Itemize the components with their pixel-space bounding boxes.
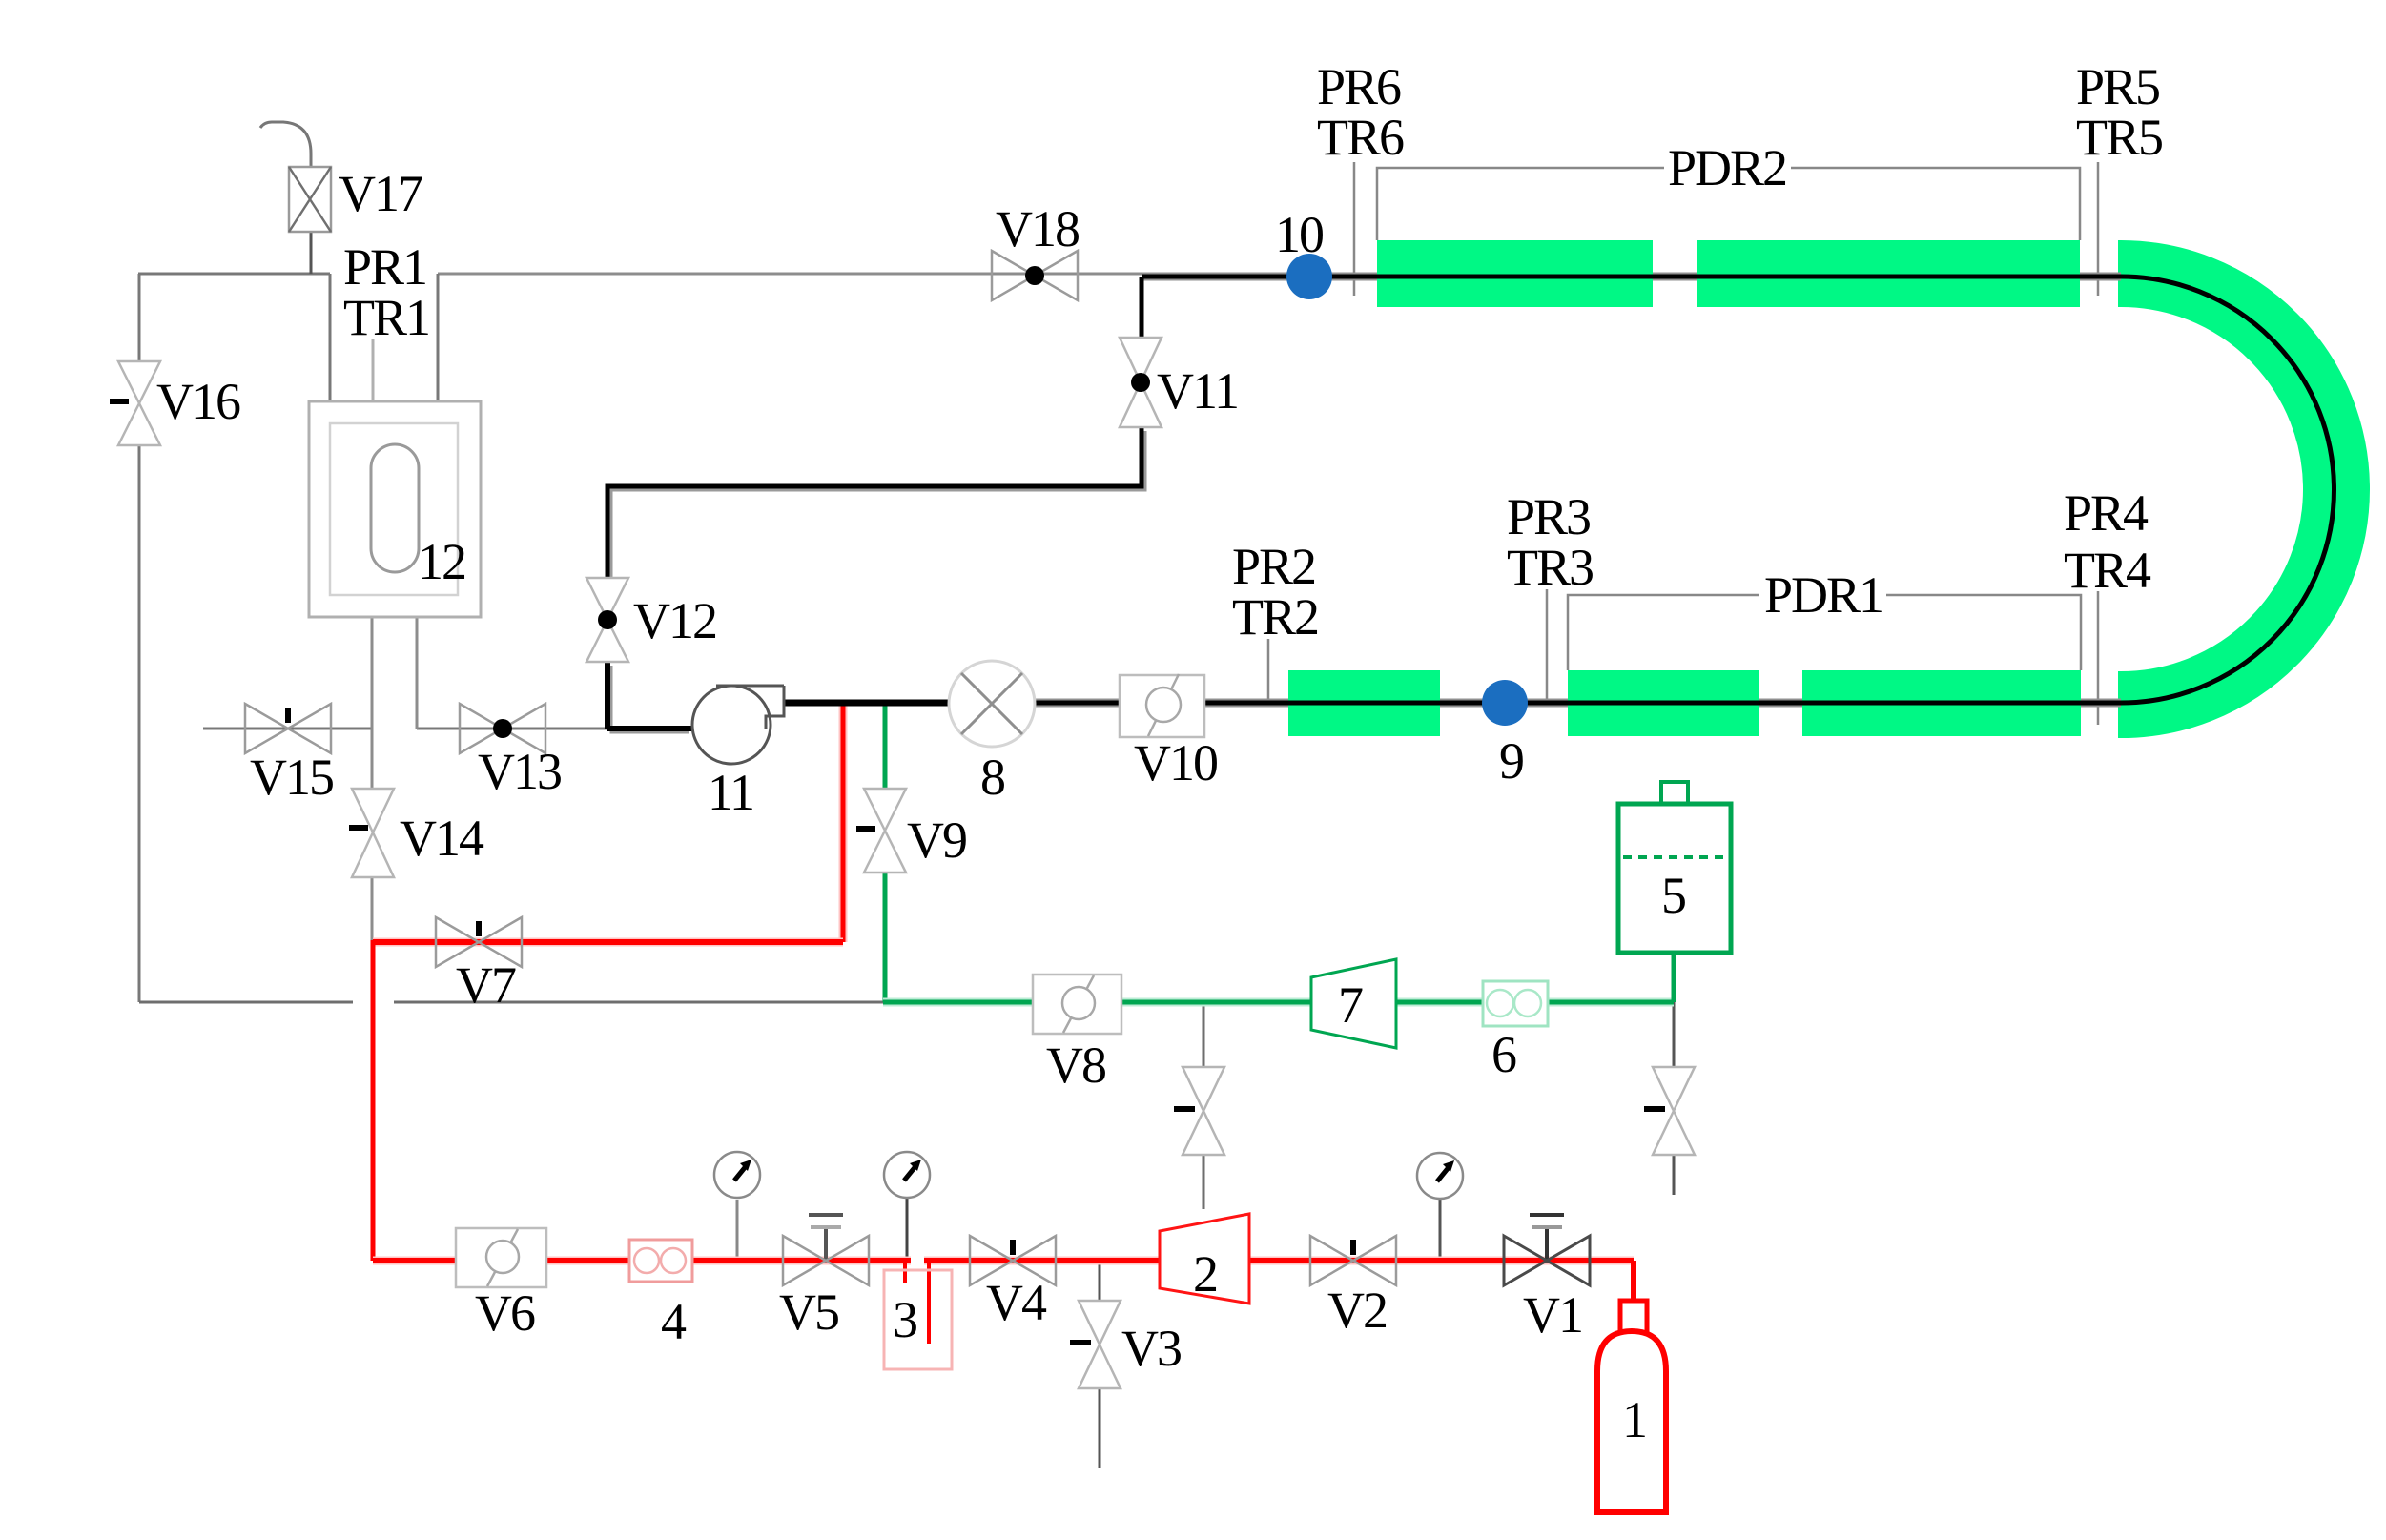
green pipe: riser to tank 5 [1672,953,1676,1002]
red pipe halo: V7 line [373,938,843,947]
green band top row left (under PDR2) [1377,240,1653,307]
svg-text:V6: V6 [475,1284,535,1342]
wire: bottom horizontal gray pipe right of red crossing [394,1001,883,1004]
svg-text:4: 4 [661,1293,687,1350]
wire: V3 drain stub [1099,1261,1101,1468]
heat exchanger 8 circle with cross [949,661,1035,747]
green pipe: branch from pump line down to V9 [883,704,888,789]
svg-text:6: 6 [1491,1026,1516,1083]
svg-text:TR2: TR2 [1232,588,1318,646]
green band mid row 1 (left of node 9) [1288,670,1440,736]
black pipe: below V11 elbow across to V12 [607,427,1142,578]
PDR2 differential sensor bracket [1377,168,2080,240]
wire: PR6 TR6 sensor stub [1353,162,1356,296]
svg-text:9: 9 [1499,732,1523,790]
vessel 12 outer box [309,401,481,617]
valve V16 (vertical) [110,361,160,445]
pump 11 circle [692,686,771,764]
svg-text:PR2: PR2 [1232,538,1315,595]
wire: bottom horizontal gray pipe left of red crossing [139,1001,353,1004]
svg-text:V10: V10 [1134,734,1217,791]
vessel 12 inner box [330,423,458,595]
valve V4 [970,1236,1056,1285]
wire: gauge stem at component 4 [736,1200,739,1261]
svg-text:PR1: PR1 [343,238,426,296]
wire: tap from top pipe into vessel 12 (left) [329,274,332,401]
wire: vessel 12 bottom tap to V13 branch [416,617,419,729]
black pipe: main loop top line and U-bend and mid line [951,277,2335,703]
vessel 12 capsule [371,444,419,572]
valve V18 [992,251,1078,300]
pressure gauge at component 4 [714,1152,760,1198]
svg-text:V11: V11 [1157,362,1238,420]
svg-text:V5: V5 [779,1283,838,1341]
black pipe: pump outlet line [784,700,954,707]
compressor 2 (red trapezoid) [1160,1214,1249,1304]
svg-text:1: 1 [1622,1391,1646,1448]
red pipe: trap 3 inlet tube [903,1263,907,1283]
svg-text:3: 3 [893,1291,916,1348]
svg-text:V16: V16 [156,373,240,430]
valve V3 (vertical) [1070,1301,1121,1388]
valve V15 [245,704,331,753]
valve V11 (vertical) [1120,338,1162,427]
gray echo below V12 [611,666,689,732]
svg-text:V17: V17 [339,165,422,222]
svg-text:PR5: PR5 [2076,58,2159,115]
wire: PR2 TR2 sensor stub [1267,639,1270,707]
svg-text:12: 12 [418,533,465,590]
wire: V15 branch line [203,728,372,730]
svg-text:PR4: PR4 [2064,484,2149,542]
svg-text:V15: V15 [250,749,333,806]
gas cylinder 1 [1597,1301,1666,1512]
svg-text:11: 11 [708,764,753,821]
svg-text:TR4: TR4 [2064,542,2151,599]
valve V5 with handwheel [783,1215,869,1285]
wire: tap from top pipe into vessel 12 (right) [437,274,440,401]
valve V1 with handwheel [1504,1215,1590,1285]
wire: gauge stem at V1 [1439,1200,1442,1261]
wire: gauge stem at trap 3 [906,1197,909,1261]
pressure gauge at V1 [1417,1153,1463,1199]
wire: V13 branch line [417,728,607,730]
check valve V10 [1120,674,1204,737]
gray echo of bypass elbow [611,431,1145,578]
black pipe: junction down to V11 [1140,277,1144,338]
wire: vessel 12 bottom tap to V14 [371,617,374,789]
svg-text:PR6: PR6 [1317,58,1401,115]
svg-text:V9: V9 [907,811,966,869]
svg-text:TR1: TR1 [343,289,429,346]
green pipe: below V9 to recovery line [883,873,888,1002]
valve V9 (vertical) [856,789,906,873]
compressor 7 (green trapezoid) [1311,959,1396,1048]
svg-text:8: 8 [980,749,1004,806]
check valve V6 [456,1228,546,1287]
wire: top horizontal pipe right segment (to V18 and junction) [438,273,1142,276]
wire: vent stub below green line (left) [1203,1002,1205,1209]
green band mid row 3 (under PDR1 right) [1802,670,2081,736]
wire: PR4 TR4 sensor stub [2097,591,2100,725]
wire: PR5 TR5 sensor stub [2097,162,2100,296]
gray pipe halo: mid line segments [1035,699,2121,708]
wire: left vertical pipe upper (x=146) [138,274,141,361]
red pipe: left vertical down to bottom line [371,940,376,1261]
red pipe: bottom supply line [373,1261,1634,1301]
svg-text:TR6: TR6 [1317,109,1404,166]
svg-text:V2: V2 [1327,1282,1387,1339]
green pipe halo: recovery line [883,998,1674,1007]
wire: top horizontal pipe left segment [138,273,330,276]
filter 6 (green) [1483,981,1548,1026]
svg-text:TR3: TR3 [1507,539,1593,596]
svg-text:V4: V4 [986,1274,1047,1331]
svg-text:5: 5 [1661,867,1685,924]
recovery tank 5 [1618,782,1731,953]
svg-text:TR5: TR5 [2076,109,2162,166]
vent valve below green line (vertical) [1174,1067,1224,1155]
svg-text:V13: V13 [478,743,561,800]
valve V12 (vertical) [586,578,628,662]
vent valve below tank 5 (vertical) [1644,1067,1695,1155]
valve V7 [436,917,522,967]
wire: below V14 to red corner [371,877,374,940]
moisture trap 3 [884,1270,952,1369]
node 10 (blue) [1286,254,1332,299]
red pipe: V7 horizontal line [373,939,843,945]
wire: TR1 sensor line into vessel 12 [372,339,375,448]
pressure gauge at trap 3 [884,1152,930,1198]
green band mid row 2 (under PDR1 left) [1568,670,1759,736]
red pipe halo: pump outlet drop [839,706,848,942]
green U-bend band [2118,274,2336,705]
red pipe: trap 3 outlet dip tube [927,1261,931,1344]
wire: PR3 TR3 sensor stub [1546,589,1549,707]
black pipe: below V12 to pump inlet [607,662,693,729]
svg-text:V7: V7 [456,956,516,1014]
green pipe: recovery horizontal line to tank 5 [883,1000,1674,1005]
svg-text:V14: V14 [400,810,484,867]
gray pipe halo: top line right of junction [1142,273,2121,281]
svg-text:V8: V8 [1046,1037,1105,1094]
check valve V8 [1033,975,1121,1034]
valve V13 [460,704,545,753]
valve V14 (vertical) [349,789,394,877]
svg-text:PDR1: PDR1 [1764,566,1882,624]
solenoid valve V17 [260,122,331,274]
node 9 (blue) [1482,680,1528,726]
wire: left vertical pipe lower (x=146) [138,445,141,1002]
PDR1 differential sensor bracket [1568,595,2081,670]
svg-text:2: 2 [1193,1245,1217,1303]
pump 11 volute outline [716,686,784,729]
svg-text:PR3: PR3 [1507,488,1590,545]
svg-text:V18: V18 [996,200,1079,257]
red pipe: from pump outlet down to V7 line [841,706,846,942]
filter 4 (red) [629,1240,692,1282]
wire: vent stub below tank 5 line (right) [1673,1002,1676,1195]
svg-text:10: 10 [1275,206,1323,263]
svg-text:V3: V3 [1121,1320,1181,1377]
red pipe halo: bottom supply line [373,1257,1634,1265]
svg-text:PDR2: PDR2 [1668,139,1786,196]
valve V2 [1310,1236,1396,1285]
svg-text:V1: V1 [1523,1286,1582,1344]
svg-text:7: 7 [1338,976,1363,1034]
svg-text:V12: V12 [633,592,716,649]
green band top row right (under PDR2) [1697,240,2080,307]
